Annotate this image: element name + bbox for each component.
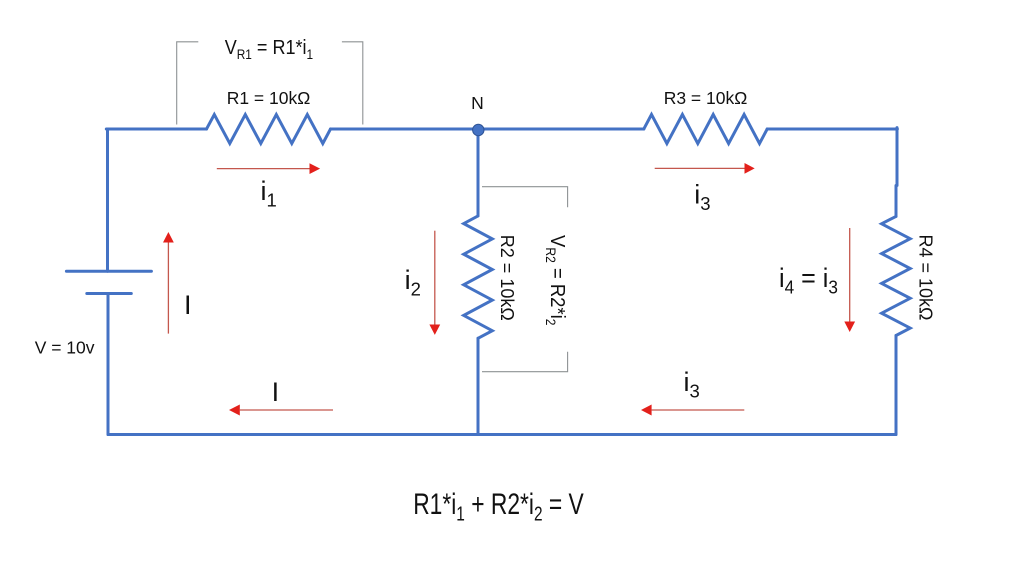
resistor R3 (644, 115, 767, 144)
arrow i2 current (down) (429, 231, 440, 335)
battery V1 top plate (66, 270, 151, 273)
wire top-right segment (767, 128, 897, 131)
wire bottom (108, 433, 896, 436)
svg-text:i3: i3 (684, 367, 700, 402)
wire top-left segment (106, 128, 206, 131)
arrow I bottom current (left) (229, 405, 333, 416)
svg-text:VR1 = R1*i1: VR1 = R1*i1 (225, 37, 313, 62)
svg-text:I: I (184, 290, 192, 320)
bracket V_R2 top (482, 187, 568, 208)
svg-text:I: I (272, 377, 280, 407)
svg-text:R1*i1 + R2*i2 = V: R1*i1 + R2*i2 = V (413, 487, 584, 525)
resistor R2 (464, 216, 493, 338)
wire top-middle segment (331, 128, 644, 131)
node N junction dot (473, 124, 484, 135)
svg-text:VR2 = R2*i2: VR2 = R2*i2 (543, 235, 569, 325)
arrow i3 top current (655, 163, 755, 174)
wire right vertical upper (896, 128, 897, 217)
bracket V_R1 right (342, 42, 363, 125)
wire middle vertical upper (477, 130, 480, 216)
arrow i4 current (down) (844, 228, 855, 332)
bracket V_R1 left (177, 42, 199, 125)
svg-text:N: N (471, 93, 484, 113)
wire right vertical lower (895, 336, 898, 435)
resistor R4 (882, 216, 911, 335)
arrow i1 current (217, 163, 320, 174)
battery V1 bottom plate (87, 292, 132, 295)
svg-text:i4 = i3: i4 = i3 (779, 262, 838, 297)
svg-text:i3: i3 (694, 180, 710, 215)
wire middle vertical lower (477, 338, 480, 434)
svg-text:R1 = 10kΩ: R1 = 10kΩ (227, 88, 311, 108)
wire left vertical lower (107, 294, 110, 435)
svg-text:i2: i2 (405, 265, 421, 300)
svg-text:R2 = 10kΩ: R2 = 10kΩ (497, 235, 517, 321)
arrow I current (up) (163, 232, 174, 334)
svg-text:R3 = 10kΩ: R3 = 10kΩ (664, 88, 748, 108)
resistor R1 (207, 115, 331, 144)
arrow i3 bottom current (left) (641, 405, 744, 416)
svg-text:V = 10v: V = 10v (35, 338, 95, 358)
wire left vertical upper (106, 129, 109, 271)
svg-text:R4 = 10kΩ: R4 = 10kΩ (915, 235, 935, 321)
svg-text:i1: i1 (261, 176, 277, 211)
bracket V_R2 bottom (482, 352, 568, 372)
